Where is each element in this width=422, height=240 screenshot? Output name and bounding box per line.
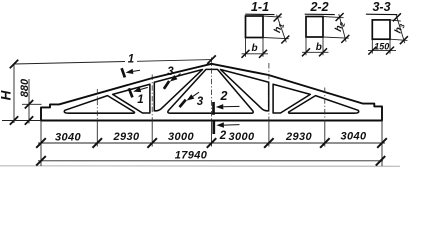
section cut 2 upper arrow — [216, 104, 224, 109]
section cut 1 upper arrow — [126, 69, 134, 74]
truss girder outline — [41, 64, 382, 121]
section cut 3 upper arrow — [170, 75, 178, 82]
svg-text:2930: 2930 — [112, 131, 140, 143]
dimension line total — [38, 160, 383, 162]
axis line node D (x=268.5) — [268, 63, 270, 121]
section cut 1 lower stroke — [129, 88, 133, 97]
axis line node E (x=325) — [324, 88, 326, 121]
section cut 3 upper stroke — [164, 81, 169, 89]
opening panel 3 right — [221, 70, 269, 111]
section cut 1 upper stroke — [122, 68, 125, 77]
svg-text:1: 1 — [128, 54, 134, 66]
faint page edge line — [0, 165, 400, 168]
svg-text:H: H — [0, 90, 14, 100]
svg-text:1-1: 1-1 — [251, 0, 269, 14]
svg-text:h1: h1 — [272, 22, 286, 35]
svg-text:150: 150 — [374, 42, 389, 52]
tick at 97.3 — [93, 138, 103, 148]
svg-text:2: 2 — [219, 130, 227, 142]
svg-text:3000: 3000 — [228, 131, 255, 143]
880 dimension line vertical — [28, 79, 30, 124]
svg-text:880: 880 — [19, 78, 31, 97]
svg-text:3: 3 — [197, 96, 204, 108]
section cut 2 upper stroke — [212, 102, 215, 115]
section 2-2 height dim — [323, 17, 344, 18]
section cut 2 lower stroke — [212, 122, 215, 135]
svg-text:b: b — [251, 43, 257, 54]
tick at 324.8 — [320, 138, 330, 148]
tick H top-left — [10, 60, 18, 68]
svg-text:3040: 3040 — [55, 131, 82, 143]
section cut 3 lower stroke — [180, 100, 186, 108]
section cut 3 lower arrow — [187, 94, 195, 100]
extension line bottom edge to left — [2, 120, 41, 122]
svg-text:b: b — [316, 42, 322, 53]
svg-text:3-3: 3-3 — [372, 0, 390, 14]
section 1-1 square — [246, 16, 264, 38]
section 3-3 square — [372, 20, 390, 39]
H dimension line vertical — [13, 64, 15, 123]
extension line right support — [381, 121, 383, 167]
axis centerline (x=211.5) — [211, 57, 213, 120]
tick 880 top — [25, 100, 33, 109]
section 1-1 height dim — [263, 16, 282, 17]
section 3-3 width dim — [371, 39, 373, 53]
svg-text:3: 3 — [167, 66, 174, 78]
section cut 1 lower arrow — [133, 87, 141, 92]
section 3-3 height dim — [390, 20, 401, 21]
section cut 2 lower arrow — [216, 122, 224, 127]
axis line node C (x=152.5) — [151, 75, 153, 121]
svg-text:h3: h3 — [393, 22, 407, 35]
tick H apex — [207, 55, 216, 64]
tick at 211.5 — [207, 138, 216, 148]
svg-text:2: 2 — [220, 89, 228, 103]
svg-text:h2: h2 — [333, 20, 347, 33]
opening panel 3 left (trapezoid) — [154, 70, 202, 111]
svg-text:17940: 17940 — [175, 150, 208, 162]
tick 880 bottom — [25, 116, 33, 125]
tick total left — [36, 156, 46, 166]
tick at 382 — [377, 138, 387, 148]
880 extension line top — [22, 103, 42, 105]
axis line node B (x=97) — [96, 89, 98, 121]
svg-text:3040: 3040 — [340, 131, 367, 143]
opening panel 2 right — [273, 84, 310, 113]
section 2-2 square — [306, 17, 323, 38]
tick at 268.9 — [264, 138, 274, 148]
H dimension line horizontal to apex (gap for label 1) — [14, 62, 125, 65]
dimension line panels — [38, 142, 385, 144]
svg-text:2930: 2930 — [285, 131, 313, 143]
section 1-1 width dim — [245, 38, 247, 57]
svg-text:3000: 3000 — [168, 131, 195, 143]
svg-text:1: 1 — [137, 94, 143, 106]
opening panel 2 left (triangle) — [113, 84, 150, 113]
opening center (under apex) — [168, 69, 253, 113]
tick at 152.2 — [147, 138, 157, 148]
svg-text:2-2: 2-2 — [309, 0, 328, 14]
tick H bottom — [10, 116, 18, 125]
section 2-2 width dim — [305, 37, 307, 55]
tick at 41 — [36, 138, 46, 148]
opening panel 1 left (wedge) — [64, 96, 134, 114]
extension line left support — [40, 121, 42, 167]
opening panel 1 right — [289, 96, 359, 114]
tick total right — [376, 156, 385, 166]
